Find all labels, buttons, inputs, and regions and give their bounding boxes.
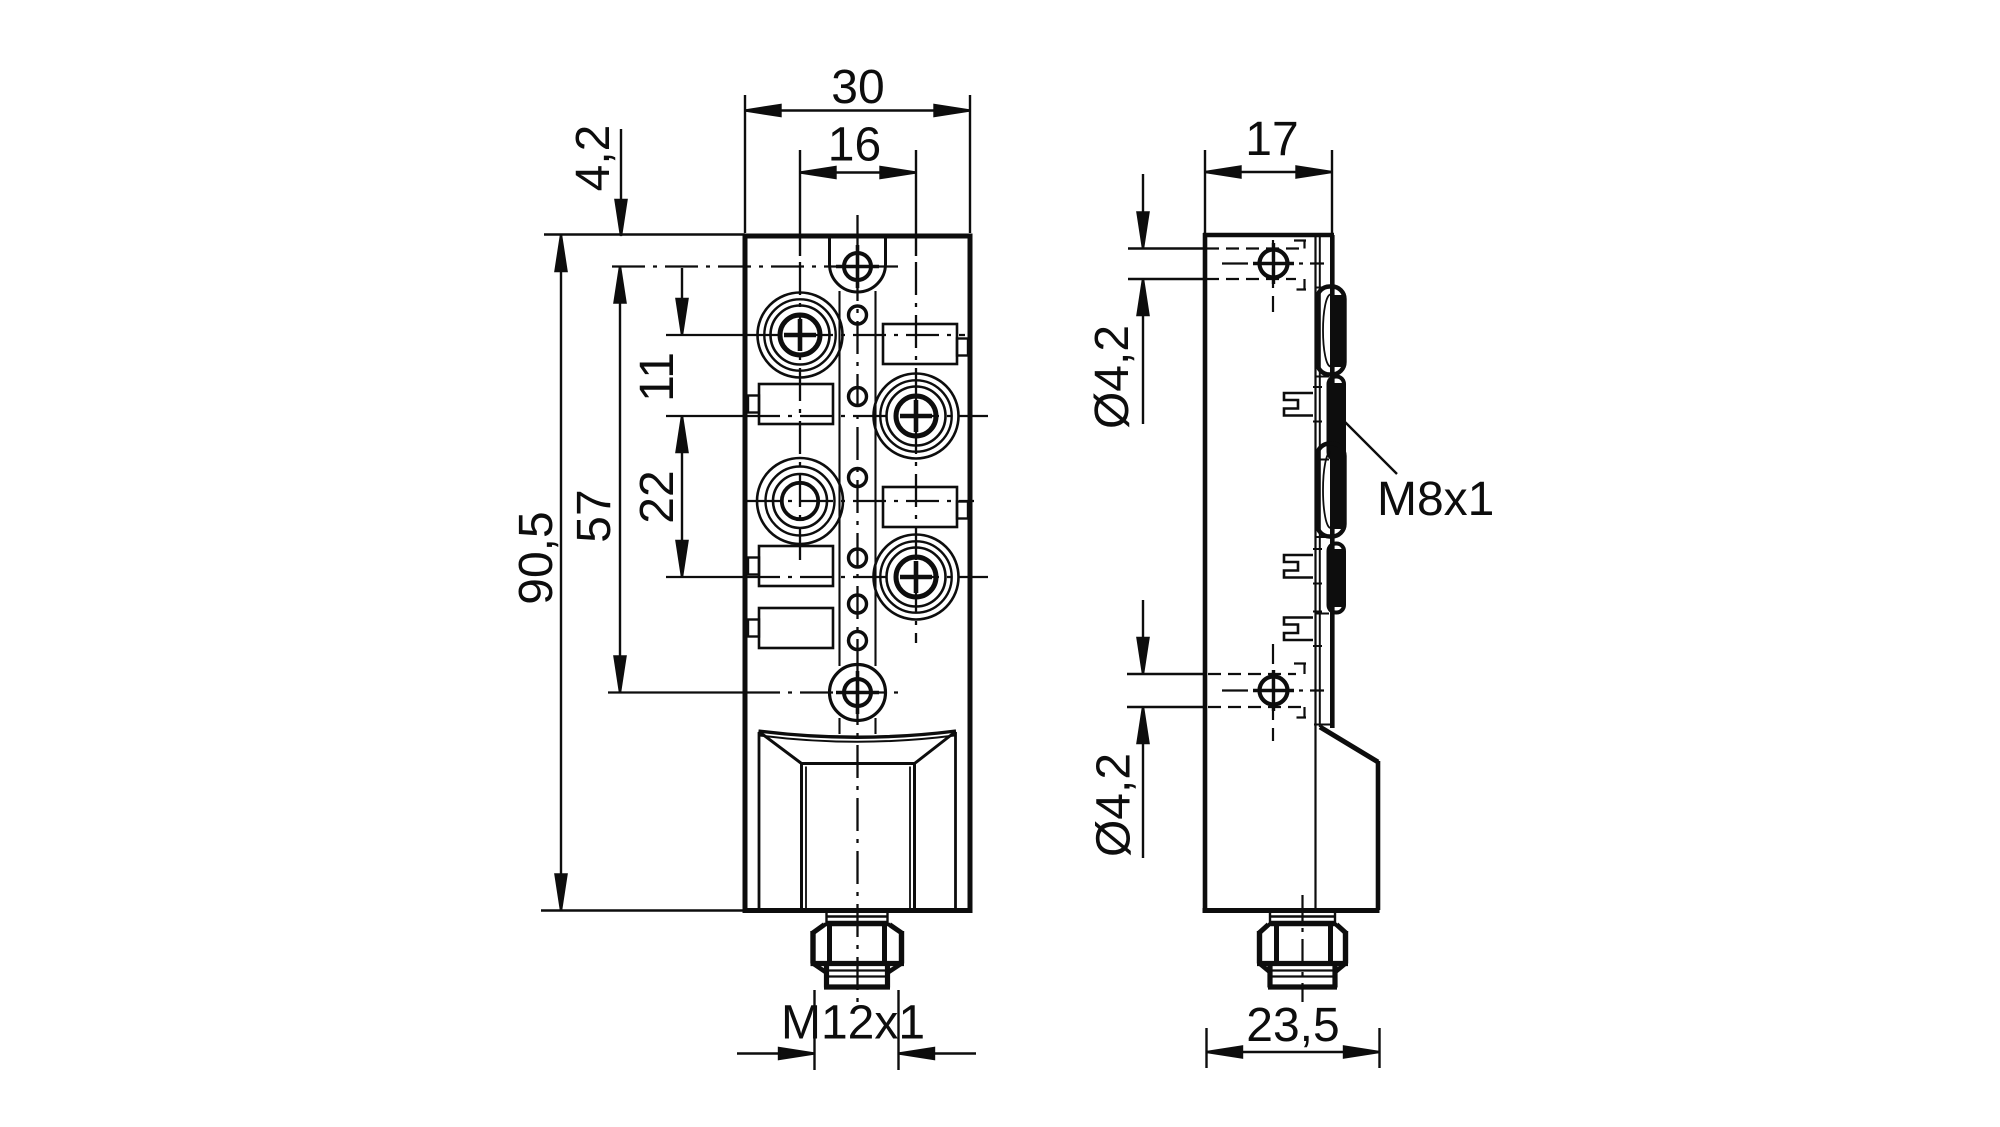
body outline front view	[745, 236, 970, 911]
M8 bump row4 hidden	[1329, 544, 1345, 613]
LED 3	[849, 469, 867, 487]
side face lower inner line	[1319, 236, 1321, 727]
svg-text:57: 57	[568, 489, 621, 542]
dimension 11	[677, 268, 688, 335]
side body bottom edge	[1203, 908, 1380, 913]
dimension 90,5	[556, 235, 567, 911]
LED 4	[849, 549, 867, 567]
dimension M12x1	[737, 990, 976, 1070]
LED 1	[849, 306, 867, 324]
svg-text:M8x1: M8x1	[1377, 473, 1494, 526]
side lower chamfer	[1320, 727, 1378, 762]
svg-text:30: 30	[831, 61, 884, 114]
cable gland ridge	[759, 731, 957, 737]
label slot ticks row2	[1313, 387, 1322, 422]
side face plate inner line	[1314, 235, 1316, 910]
leader M8x1	[1343, 420, 1397, 474]
side body top edge	[1203, 233, 1334, 238]
side top screw	[1253, 243, 1294, 284]
svg-text:90,5: 90,5	[510, 511, 563, 604]
side bottom screw	[1253, 670, 1294, 711]
svg-text:17: 17	[1245, 113, 1298, 166]
side bottom screw centerlines	[1222, 689, 1324, 691]
svg-text:M12x1: M12x1	[781, 997, 925, 1050]
M12 nut front	[811, 925, 905, 988]
M8 bump row3	[1317, 444, 1345, 537]
dimension diameter 4,2 top	[1128, 174, 1205, 424]
M12 nut side	[1257, 925, 1348, 988]
centerline row bottom screw	[608, 691, 747, 693]
svg-text:Ø4,2: Ø4,2	[1086, 325, 1139, 429]
LED channel right wall	[874, 291, 876, 734]
side body right face outer	[1330, 235, 1335, 728]
label slot ticks row4	[1313, 549, 1322, 584]
M8 bump row1	[1317, 287, 1345, 375]
label holder row5 side	[1284, 618, 1313, 641]
SIDE VIEW	[1203, 233, 1380, 1002]
cable gland chamfers	[760, 732, 956, 764]
M8 bump row2 hidden	[1329, 377, 1345, 460]
svg-text:22: 22	[631, 470, 684, 523]
side lower right edge	[1376, 761, 1381, 910]
svg-text:11: 11	[631, 352, 684, 402]
blind socket row3 left	[757, 458, 843, 544]
label row3 right	[883, 487, 968, 527]
dimension 16	[800, 150, 916, 256]
bottom screw M4	[836, 671, 879, 714]
M8 socket row2 right	[874, 374, 959, 459]
label row4 left	[748, 546, 833, 586]
centerline row2	[666, 415, 747, 417]
side bottom screw hidden bore	[1208, 664, 1306, 718]
LED 6	[849, 632, 867, 650]
LED 2	[849, 388, 867, 406]
M8 socket row4 right	[874, 535, 959, 620]
M8 socket row1 left	[758, 293, 843, 378]
dimension 4,2 front	[616, 129, 627, 236]
side body left edge	[1203, 233, 1208, 913]
bottom screw boss	[830, 665, 886, 721]
dimension 30	[745, 95, 970, 233]
label holder row4 side	[1284, 555, 1313, 578]
centerline vertical front	[856, 215, 858, 1008]
side top screw hidden bore	[1206, 240, 1306, 290]
label row1 right	[883, 324, 968, 364]
M12 thread shank front	[827, 913, 888, 924]
face slot ticks	[1314, 288, 1333, 725]
centerline row1	[666, 334, 747, 336]
label slot ticks row5	[1313, 612, 1322, 647]
cable gland outer walls	[759, 732, 956, 908]
dimension 22	[677, 416, 688, 577]
top screw boss	[830, 236, 886, 292]
centerline row4	[666, 576, 747, 578]
extension line body top left	[544, 233, 745, 235]
label row2 left	[748, 384, 833, 424]
label holder row2 side	[1284, 393, 1313, 416]
centerline right column	[915, 262, 917, 643]
top screw M4	[836, 245, 879, 288]
svg-text:23,5: 23,5	[1246, 999, 1339, 1052]
cable gland inner face	[802, 764, 915, 909]
M12 thread shank side	[1270, 913, 1335, 924]
extension line body bottom left	[541, 909, 745, 911]
dimension 57	[615, 267, 626, 693]
dimension diameter 4,2 bottom	[1127, 600, 1205, 858]
dimension 23,5	[1207, 1028, 1380, 1068]
svg-text:4,2: 4,2	[567, 125, 620, 192]
M12 centerline side	[1301, 895, 1303, 1002]
centerline row3	[747, 500, 974, 502]
LED channel left wall	[838, 291, 840, 734]
dimension 17	[1205, 150, 1332, 233]
centerline row top screw	[612, 265, 898, 267]
svg-text:16: 16	[828, 119, 881, 172]
svg-text:Ø4,2: Ø4,2	[1088, 753, 1141, 857]
side top screw centerlines	[1222, 262, 1324, 264]
centerline left column	[799, 262, 801, 562]
label row5 left	[748, 608, 833, 648]
LED 5	[849, 595, 867, 613]
